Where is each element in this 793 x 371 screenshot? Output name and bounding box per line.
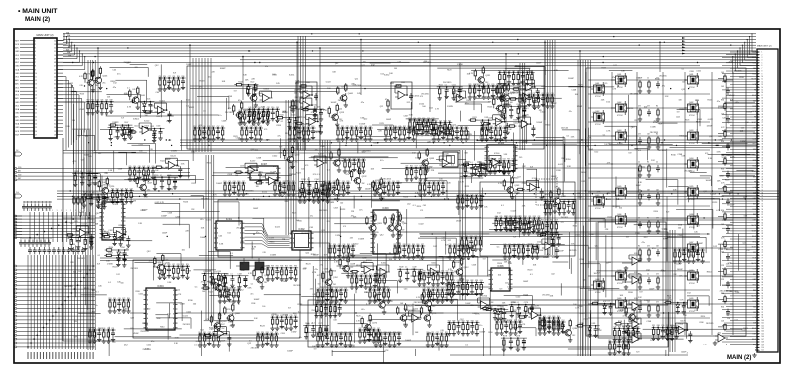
svg-text:0.1: 0.1: [603, 135, 606, 137]
shunt component row R407: [373, 181, 401, 197]
svg-text:1/16W: 1/16W: [627, 342, 632, 344]
svg-text:2SC1815: 2SC1815: [684, 171, 692, 173]
IC IC305: [485, 143, 518, 171]
svg-text:48: 48: [54, 62, 56, 64]
svg-text:R20: R20: [423, 271, 426, 273]
svg-text:IC9: IC9: [503, 225, 506, 227]
svg-text:IC140: IC140: [532, 178, 538, 180]
svg-text:Q433: Q433: [689, 130, 693, 132]
svg-text:GND: GND: [15, 66, 20, 68]
svg-text:R130: R130: [154, 175, 158, 177]
svg-text:12: 12: [35, 80, 37, 82]
svg-text:1000P: 1000P: [405, 340, 411, 342]
svg-text:VD5: VD5: [753, 133, 756, 135]
svg-text:R56: R56: [721, 307, 724, 309]
vertical bus wires B10: [670, 230, 675, 352]
svg-text:R4: R4: [647, 162, 649, 164]
svg-text:41: 41: [762, 160, 764, 162]
svg-text:1/16W: 1/16W: [638, 195, 644, 197]
svg-text:R123: R123: [465, 186, 469, 188]
op-amp IC137: [234, 161, 262, 183]
svg-text:C60: C60: [203, 126, 206, 128]
svg-text:DTC114: DTC114: [689, 115, 695, 117]
svg-text:• MAIN UNIT: • MAIN UNIT: [18, 8, 58, 15]
svg-text:R25: R25: [487, 84, 490, 86]
svg-text:R13: R13: [432, 288, 435, 290]
svg-text:R310: R310: [160, 326, 164, 328]
svg-text:79: 79: [762, 263, 764, 265]
svg-text:C25: C25: [308, 188, 311, 190]
svg-text:MUTE: MUTE: [751, 263, 756, 265]
svg-text:1/16W: 1/16W: [479, 332, 485, 334]
svg-text:2SC1815: 2SC1815: [569, 250, 577, 252]
coupling network R107/D107: [108, 122, 132, 137]
svg-text:C67: C67: [458, 244, 461, 246]
svg-text:R84: R84: [348, 158, 351, 160]
svg-text:0.1: 0.1: [251, 283, 254, 285]
svg-text:0.022: 0.022: [660, 270, 666, 272]
svg-text:DTC114: DTC114: [617, 199, 623, 201]
svg-text:473: 473: [638, 106, 641, 108]
svg-text:R134: R134: [301, 179, 305, 181]
transistor Q401: [613, 73, 627, 89]
svg-text:1000P: 1000P: [631, 322, 637, 324]
svg-text:4.7K: 4.7K: [730, 157, 735, 159]
shunt component row R139: [544, 200, 576, 216]
svg-text:21: 21: [762, 106, 764, 108]
svg-text:0.022: 0.022: [289, 167, 295, 169]
svg-text:Q12: Q12: [551, 274, 554, 276]
svg-text:3.3K: 3.3K: [167, 282, 172, 284]
svg-text:50: 50: [762, 184, 764, 186]
svg-text:Q439: Q439: [689, 298, 693, 300]
svg-text:DTC114: DTC114: [617, 283, 623, 285]
transistor Q177: [620, 303, 642, 326]
svg-text:4.7K: 4.7K: [554, 70, 559, 72]
svg-text:C71: C71: [692, 248, 695, 250]
svg-text:B: B: [121, 212, 122, 214]
bus fanout block lower-left B: [15, 255, 95, 359]
svg-text:1/16W: 1/16W: [457, 64, 463, 66]
wires at Q371/Q372: [236, 258, 270, 266]
svg-text:Q431: Q431: [689, 74, 693, 76]
svg-text:C208: C208: [334, 207, 338, 209]
svg-text:4.7K: 4.7K: [160, 202, 165, 204]
svg-text:REF: REF: [753, 274, 756, 276]
svg-text:R193: R193: [108, 252, 112, 254]
svg-text:C52: C52: [446, 271, 449, 273]
svg-text:4.7K: 4.7K: [114, 137, 119, 139]
RC network R111/C111: [437, 84, 463, 100]
svg-text:1/16W: 1/16W: [291, 174, 296, 176]
svg-text:1000P: 1000P: [558, 250, 564, 252]
svg-text:1/16W: 1/16W: [729, 95, 735, 97]
svg-text:100: 100: [401, 222, 404, 224]
svg-text:1/16W: 1/16W: [710, 194, 716, 196]
svg-text:IC304: IC304: [157, 286, 164, 288]
svg-text:R97: R97: [609, 340, 612, 342]
svg-text:C47: C47: [418, 271, 421, 273]
svg-text:2SC1815: 2SC1815: [443, 82, 452, 84]
svg-text:86: 86: [762, 282, 764, 284]
transistor Q771: [420, 303, 437, 327]
svg-text:R39: R39: [452, 320, 455, 322]
svg-text:IC137: IC137: [250, 161, 256, 163]
svg-text:47u: 47u: [367, 328, 370, 330]
shunt component row R102: [86, 100, 114, 116]
svg-text:C20: C20: [442, 181, 445, 183]
svg-text:B: B: [396, 212, 397, 214]
ground: [752, 353, 756, 357]
shunt component row R213: [358, 328, 381, 344]
transistor Q465: [591, 194, 605, 210]
svg-text:VD5: VD5: [15, 55, 19, 57]
svg-text:54: 54: [54, 40, 56, 42]
svg-text:47u: 47u: [241, 264, 244, 266]
svg-text:D12: D12: [168, 140, 171, 142]
svg-text:R128: R128: [74, 171, 78, 173]
svg-text:1000P: 1000P: [406, 138, 412, 140]
svg-text:Q402: Q402: [617, 102, 621, 104]
svg-text:3.3K: 3.3K: [219, 244, 224, 246]
vertical bus wires B8: [206, 155, 214, 320]
op-amp IC153: [350, 260, 378, 282]
svg-text:Q409: Q409: [617, 298, 621, 300]
svg-text:C24: C24: [342, 181, 345, 183]
svg-text:3.3K: 3.3K: [415, 192, 420, 194]
coupling network R125/D125: [84, 194, 108, 209]
svg-text:C110: C110: [134, 126, 138, 128]
svg-text:45: 45: [762, 171, 764, 173]
svg-text:C2: C2: [647, 78, 649, 80]
capacitor row lower-left: [28, 247, 85, 254]
svg-text:47u: 47u: [200, 219, 203, 221]
svg-text:53: 53: [54, 44, 56, 46]
svg-text:70: 70: [762, 239, 764, 241]
svg-text:0.1: 0.1: [389, 252, 392, 254]
svg-text:C178: C178: [516, 336, 520, 338]
svg-text:R58: R58: [490, 126, 493, 128]
svg-text:R194: R194: [109, 247, 113, 249]
svg-text:1/16W: 1/16W: [203, 288, 209, 290]
svg-text:1: 1: [34, 210, 35, 212]
transistor Q432: [685, 101, 699, 117]
svg-text:33: 33: [54, 116, 56, 118]
svg-text:R123: R123: [233, 136, 237, 138]
svg-text:100: 100: [394, 68, 397, 70]
svg-text:D12: D12: [228, 233, 231, 235]
svg-text:C130: C130: [167, 175, 171, 177]
svg-text:R40: R40: [541, 220, 544, 222]
svg-text:C28: C28: [523, 93, 526, 95]
svg-text:3.3K: 3.3K: [409, 115, 414, 117]
svg-text:29: 29: [762, 128, 764, 130]
svg-text:66: 66: [762, 228, 764, 230]
svg-text:C42: C42: [369, 126, 372, 128]
shunt component row R124: [448, 244, 476, 259]
svg-text:R29: R29: [549, 200, 552, 202]
RC network R178/C178: [501, 336, 527, 352]
svg-text:Q12: Q12: [253, 90, 256, 92]
svg-text:42: 42: [762, 163, 764, 165]
shunt component row R208: [128, 166, 156, 182]
svg-text:10: 10: [762, 76, 764, 78]
svg-text:Q12: Q12: [361, 65, 364, 67]
svg-text:32: 32: [762, 136, 764, 138]
svg-text:0.022: 0.022: [472, 313, 478, 315]
RC network R128/C128: [72, 171, 98, 187]
svg-text:R124: R124: [160, 161, 164, 163]
svg-text:R47: R47: [212, 126, 215, 128]
svg-text:C15: C15: [335, 288, 338, 290]
svg-text:473: 473: [656, 302, 659, 304]
svg-text:4.7K: 4.7K: [623, 316, 628, 318]
transistor Q434: [685, 157, 699, 173]
svg-text:99: 99: [762, 317, 764, 319]
transistor Q436: [685, 213, 699, 229]
svg-text:C65: C65: [129, 166, 132, 168]
svg-text:C62: C62: [96, 100, 99, 102]
svg-text:C45: C45: [82, 208, 85, 210]
svg-text:R123: R123: [258, 172, 262, 174]
svg-text:R47: R47: [142, 166, 145, 168]
svg-text:1/16W: 1/16W: [97, 186, 103, 188]
svg-text:1/16W: 1/16W: [427, 166, 432, 168]
RC network R130/C130: [152, 175, 178, 191]
svg-text:87: 87: [762, 285, 764, 287]
svg-text:20: 20: [35, 109, 37, 111]
transistor Q372 dark body: [255, 262, 264, 270]
op-amp IC803: [260, 89, 273, 103]
svg-text:R73: R73: [363, 328, 366, 330]
svg-text:33: 33: [762, 138, 764, 140]
svg-text:Q512: Q512: [464, 267, 470, 269]
svg-text:B: B: [396, 234, 397, 236]
svg-text:R123: R123: [725, 179, 729, 181]
svg-text:19: 19: [762, 100, 764, 102]
component column right of array: [718, 72, 733, 335]
svg-text:IC428: IC428: [443, 154, 449, 156]
svg-text:1/16W: 1/16W: [295, 133, 301, 135]
svg-text:35: 35: [54, 109, 56, 111]
svg-text:C29: C29: [362, 158, 365, 160]
svg-text:C56: C56: [321, 288, 324, 290]
svg-text:C57: C57: [217, 126, 220, 128]
svg-text:R310: R310: [425, 134, 429, 136]
shunt component row R150: [336, 126, 373, 142]
svg-text:R115: R115: [305, 107, 309, 109]
shunt component row R147: [505, 216, 542, 232]
svg-text:1000P: 1000P: [327, 248, 333, 250]
shunt component row R173: [613, 326, 641, 342]
svg-text:D12: D12: [116, 274, 119, 276]
svg-text:R123: R123: [685, 119, 689, 121]
svg-text:62: 62: [762, 217, 764, 219]
svg-text:R91: R91: [290, 266, 293, 268]
svg-text:B: B: [276, 168, 277, 170]
svg-text:36: 36: [762, 146, 764, 148]
transistor Q673: [496, 83, 513, 107]
transistor Q468: [591, 278, 605, 294]
svg-text:C114: C114: [301, 117, 305, 119]
transistor Q439: [685, 297, 699, 313]
transistor Q168: [416, 290, 438, 313]
svg-text:Q437: Q437: [689, 242, 693, 244]
svg-text:R86: R86: [412, 244, 415, 246]
transistor Q188: [488, 94, 510, 117]
svg-text:IC145: IC145: [547, 237, 553, 239]
svg-text:D181: D181: [592, 323, 596, 325]
svg-text:C208: C208: [175, 216, 179, 218]
svg-text:C23: C23: [360, 274, 363, 276]
op-amp IC63 buffer: [622, 298, 642, 315]
shunt component row R218: [673, 248, 705, 263]
svg-text:51: 51: [54, 51, 56, 53]
svg-text:R19: R19: [347, 181, 350, 183]
transistor Q131: [324, 178, 346, 201]
svg-text:R50: R50: [127, 298, 130, 300]
svg-text:C31: C31: [320, 302, 323, 304]
svg-text:C16: C16: [245, 126, 248, 128]
shunt component row R536: [256, 332, 279, 348]
svg-text:B: B: [173, 323, 174, 325]
svg-text:Q12: Q12: [529, 243, 532, 245]
svg-text:1: 1: [89, 210, 90, 212]
svg-text:C40: C40: [432, 271, 435, 273]
svg-text:R149: R149: [399, 267, 403, 269]
transistor Q435: [685, 185, 699, 201]
svg-text:0.022: 0.022: [367, 321, 373, 323]
svg-text:R31: R31: [355, 126, 358, 128]
svg-text:C27: C27: [168, 76, 171, 78]
interconnect wires: [71, 62, 755, 363]
svg-text:47u: 47u: [398, 134, 401, 136]
svg-text:4.7K: 4.7K: [384, 350, 389, 352]
svg-text:IC305: IC305: [498, 143, 505, 145]
svg-text:D12: D12: [746, 250, 749, 252]
shunt component row R638: [418, 181, 446, 197]
svg-text:C2: C2: [638, 162, 640, 164]
shunt component row R922: [368, 288, 391, 304]
transistor Q170: [356, 314, 378, 337]
svg-text:R123: R123: [602, 68, 606, 70]
svg-text:4: 4: [35, 51, 36, 53]
svg-text:IC9: IC9: [697, 226, 700, 228]
svg-text:R31: R31: [427, 271, 430, 273]
svg-text:IC351: IC351: [289, 75, 295, 77]
svg-text:C45: C45: [398, 62, 401, 64]
svg-text:50: 50: [54, 55, 56, 57]
shunt component row R986: [495, 320, 523, 336]
svg-text:1000P: 1000P: [220, 68, 226, 70]
svg-text:R68: R68: [657, 325, 660, 327]
svg-text:103: 103: [721, 86, 724, 88]
svg-text:0.022: 0.022: [139, 294, 144, 296]
op-amp IC112: [289, 96, 317, 118]
shunt component row R185: [651, 325, 679, 341]
block outline mid: [218, 200, 548, 257]
svg-text:0.022: 0.022: [606, 199, 611, 201]
svg-text:IC9: IC9: [135, 67, 138, 69]
svg-text:68: 68: [762, 233, 764, 235]
svg-text:R122: R122: [238, 82, 242, 84]
svg-text:0.022: 0.022: [516, 297, 521, 299]
svg-text:C83: C83: [372, 328, 375, 330]
svg-text:C64: C64: [503, 159, 506, 161]
svg-text:0.022: 0.022: [619, 310, 625, 312]
svg-text:C45: C45: [79, 85, 82, 87]
coupling network R105/D105: [130, 99, 154, 114]
svg-text:63: 63: [762, 220, 764, 222]
svg-text:R123: R123: [743, 328, 747, 330]
svg-text:1/16W: 1/16W: [634, 318, 640, 320]
svg-text:C45: C45: [262, 252, 265, 254]
svg-text:3.3K: 3.3K: [247, 288, 252, 290]
svg-text:C69: C69: [551, 93, 554, 95]
svg-text:C37: C37: [172, 264, 175, 266]
svg-text:108: 108: [762, 342, 765, 344]
svg-text:IC9: IC9: [293, 139, 296, 141]
svg-text:R123: R123: [403, 324, 407, 326]
svg-text:22: 22: [35, 116, 37, 118]
transistor Q113: [323, 103, 345, 126]
svg-text:REF: REF: [753, 290, 756, 292]
svg-text:1/16W: 1/16W: [538, 250, 544, 252]
svg-text:59: 59: [762, 209, 764, 211]
svg-text:R71: R71: [212, 332, 215, 334]
svg-text:23: 23: [762, 111, 764, 113]
svg-text:1: 1: [43, 210, 44, 212]
shunt component row R901: [198, 332, 221, 348]
svg-text:GND: GND: [15, 51, 20, 53]
svg-text:C45: C45: [440, 330, 443, 332]
shunt component row R211: [218, 288, 241, 304]
svg-text:D12: D12: [255, 150, 258, 152]
svg-text:47u: 47u: [201, 282, 204, 284]
svg-text:Q12: Q12: [380, 106, 383, 108]
vertical bus wires B5: [545, 40, 555, 255]
svg-text:47u: 47u: [717, 101, 720, 103]
shunt component row R198: [488, 159, 516, 175]
svg-text:D12: D12: [113, 83, 116, 85]
svg-text:47: 47: [762, 176, 764, 178]
svg-text:1/16W: 1/16W: [359, 124, 365, 126]
svg-text:R123: R123: [192, 183, 196, 185]
bias resistors row 5: [638, 190, 660, 206]
svg-text:1000P: 1000P: [536, 62, 542, 64]
svg-text:18: 18: [762, 98, 764, 100]
svg-text:C55: C55: [475, 320, 478, 322]
svg-text:C26: C26: [333, 181, 336, 183]
shunt component row R856: [384, 126, 416, 142]
svg-text:21: 21: [35, 113, 37, 115]
svg-text:IC179: IC179: [533, 306, 539, 308]
svg-text:R89: R89: [394, 244, 397, 246]
svg-text:R123: R123: [663, 248, 667, 250]
svg-text:0.022: 0.022: [419, 223, 425, 225]
svg-text:R77: R77: [480, 194, 483, 196]
svg-text:R91: R91: [181, 264, 184, 266]
svg-text:103: 103: [762, 328, 765, 330]
svg-text:C63: C63: [407, 244, 410, 246]
svg-text:R94: R94: [254, 126, 257, 128]
svg-text:47u: 47u: [218, 115, 221, 117]
svg-text:0.022: 0.022: [607, 216, 612, 218]
svg-text:R60: R60: [199, 332, 202, 334]
svg-text:R67: R67: [294, 315, 297, 317]
svg-text:R81: R81: [465, 236, 468, 238]
svg-text:R123: R123: [464, 172, 468, 174]
